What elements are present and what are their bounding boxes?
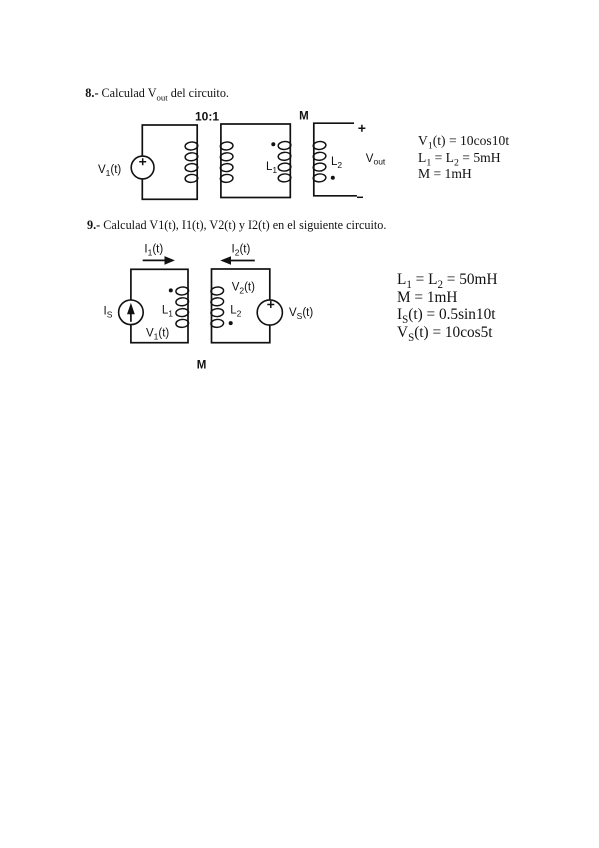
wire loop right (circuit 9 voltage-source mesh) bbox=[212, 269, 270, 343]
inductor L2 (circuit 8) bbox=[313, 141, 326, 182]
polarity dot L2 (circuit 8) bbox=[331, 176, 335, 180]
svg-text:VS(t): VS(t) bbox=[289, 307, 313, 321]
inductor L1 (circuit 9) bbox=[176, 287, 189, 328]
given values problem 8 bbox=[418, 133, 509, 182]
svg-text:L2: L2 bbox=[230, 304, 241, 318]
svg-text:L2: L2 bbox=[331, 156, 342, 170]
current source IS bbox=[119, 300, 144, 325]
title problem 9 bbox=[87, 218, 386, 233]
svg-text:IS: IS bbox=[104, 305, 113, 319]
svg-text:M: M bbox=[299, 111, 309, 123]
inductor L2 (circuit 9) bbox=[211, 287, 224, 328]
minus sign of Vout bbox=[357, 196, 363, 198]
arrow I1 (points right) bbox=[143, 256, 175, 265]
inductor L1 (circuit 8) bbox=[278, 141, 291, 182]
svg-text:Vout: Vout bbox=[366, 153, 386, 167]
wire loop 3 (circuit 8 output, open) bbox=[314, 123, 357, 196]
svg-text:I1(t): I1(t) bbox=[144, 244, 163, 258]
polarity dot L1 (circuit 9) bbox=[169, 288, 173, 292]
svg-text:10:1: 10:1 bbox=[195, 110, 219, 124]
voltage source VS bbox=[257, 300, 282, 325]
arrow I2 (points left) bbox=[220, 256, 255, 265]
svg-text:V2(t): V2(t) bbox=[232, 282, 255, 296]
svg-text:V1(t): V1(t) bbox=[98, 164, 121, 178]
inductor primary of 10:1 transformer bbox=[185, 142, 198, 183]
svg-text:V1(t): V1(t) bbox=[146, 327, 169, 341]
wire loop 2 (circuit 8 middle mesh) bbox=[221, 124, 290, 198]
given values problem 9 bbox=[397, 271, 498, 341]
wire loop left (circuit 9 current-source mesh) bbox=[131, 269, 188, 342]
voltage source V1 bbox=[131, 156, 154, 179]
svg-text:M: M bbox=[197, 359, 207, 371]
title problem 8 bbox=[85, 86, 229, 101]
wire loop 1 (circuit 8 source mesh) bbox=[142, 125, 197, 199]
svg-text:I2(t): I2(t) bbox=[232, 244, 251, 258]
polarity dot L2 (circuit 9) bbox=[229, 321, 233, 325]
svg-text:L1: L1 bbox=[162, 304, 173, 318]
polarity dot L1 (circuit 8) bbox=[271, 142, 275, 146]
svg-text:L1: L1 bbox=[266, 161, 277, 175]
plus sign of Vout bbox=[358, 125, 365, 132]
inductor secondary of 10:1 transformer bbox=[220, 142, 233, 183]
